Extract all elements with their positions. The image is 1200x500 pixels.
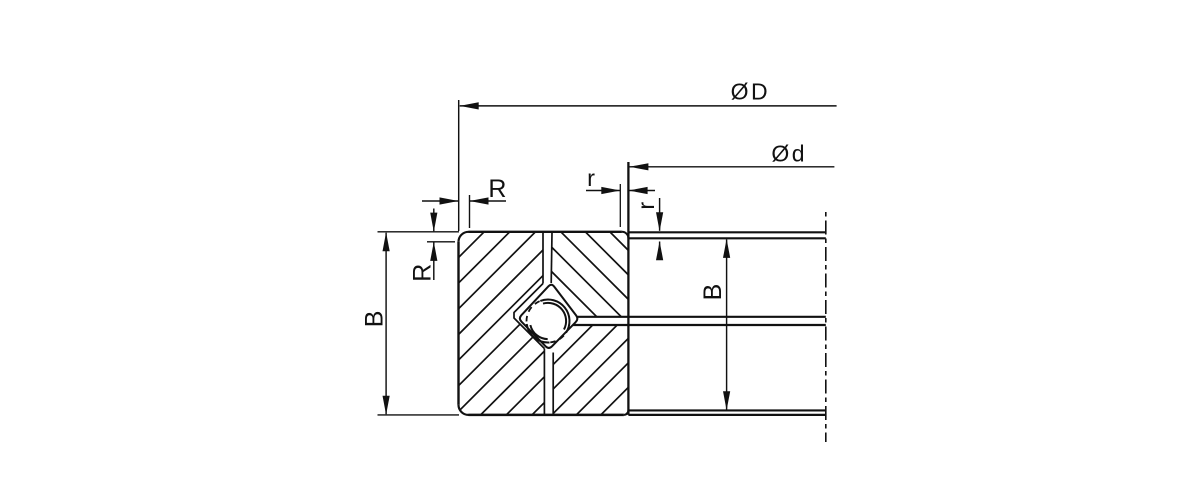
section outline: top edge (378, 162, 826, 415)
OD extension line (458, 100, 460, 231)
Od dimension line (629, 166, 834, 168)
R horizontal dim lines (422, 200, 459, 202)
r horizontal dim lines (586, 190, 620, 192)
dashed ball outline lower-right (550, 333, 565, 342)
B left dimension line (385, 233, 387, 414)
bottom face silhouette line right (628, 414, 825, 416)
svg-text:R: R (488, 175, 506, 203)
chamfer circle silhouette line bottom right (628, 409, 825, 411)
bottom-left corner radius (459, 405, 469, 415)
top slit right wall (550, 233, 553, 283)
hatching top-right ring section (511, 231, 696, 318)
svg-text:ØD: ØD (731, 79, 771, 105)
r vertical dim lines (659, 198, 661, 231)
bottom slit right wall (552, 353, 554, 415)
svg-text:r: r (633, 202, 659, 210)
lower-left contact double arc (527, 324, 550, 343)
left ring raceway groove walls (514, 284, 544, 349)
upper-right contact double arc (540, 300, 569, 333)
bottom slit left wall (543, 349, 545, 415)
bottom face line extension left (B tick) (378, 414, 460, 416)
R vertical dim lines (433, 209, 435, 232)
raceway gap upper line (577, 316, 826, 318)
right edge (bore) with extension up to Od dimension (627, 162, 629, 415)
gap between rings: top slit left wall (542, 233, 544, 284)
arrowheads (460, 102, 479, 109)
ball / raceway contact arcs (527, 300, 570, 343)
hatching bottom-right ring section (502, 324, 717, 416)
hatching left ring section (274, 231, 716, 416)
svg-text:Ød: Ød (771, 141, 807, 167)
B right dimension line (726, 240, 728, 411)
svg-text:B: B (360, 311, 388, 328)
left edge (outer diameter surface) (457, 242, 459, 405)
svg-text:r: r (587, 165, 595, 191)
top face line extension left (B tick) (378, 231, 460, 233)
svg-text:R: R (409, 264, 437, 282)
raceway gap lower line (573, 324, 826, 326)
dashed ball outline upper-left (527, 301, 540, 323)
top-right corner radius r (622, 232, 629, 239)
OD dimension line (460, 105, 837, 107)
centerline (bearing axis) (825, 212, 827, 442)
top bore silhouette line right (628, 231, 825, 233)
dimensions (386, 100, 836, 414)
top-left corner radius R (459, 232, 469, 242)
bottom edge (469, 414, 624, 417)
diamond raceway bore (rotated square) (520, 285, 577, 348)
bottom-right corner radius (624, 410, 629, 415)
svg-text:B: B (699, 284, 727, 301)
chamfer circle silhouette line top right (628, 237, 825, 239)
